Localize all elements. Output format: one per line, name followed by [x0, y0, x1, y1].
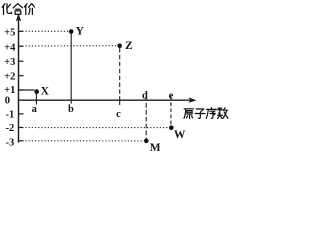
x-axis tick a with riser to X — [35, 93, 37, 105]
子 — [195, 109, 205, 118]
y-axis tick +5 — [19, 30, 24, 32]
价 — [24, 4, 34, 15]
svg-text:-1: -1 — [6, 109, 15, 120]
svg-text:0: 0 — [5, 95, 10, 106]
y-axis tick +3 — [19, 60, 24, 62]
data point Y — [69, 29, 74, 34]
solid line +1 to X — [19, 89, 35, 91]
svg-text:e: e — [169, 90, 174, 101]
x-axis tick c (solid crossing) — [119, 97, 121, 106]
dashed vertical from d down to M — [145, 96, 147, 139]
数 — [217, 108, 228, 119]
y-axis tick +4 — [19, 45, 24, 47]
svg-text:b: b — [68, 104, 74, 115]
y-axis tick -3 — [19, 140, 24, 142]
svg-text:a: a — [32, 104, 38, 115]
svg-text:X: X — [41, 86, 50, 98]
化 — [2, 4, 11, 15]
y-axis tick -2 — [19, 127, 24, 129]
svg-text:-2: -2 — [6, 123, 15, 134]
x-axis arrowhead — [188, 97, 196, 103]
y-axis tick +1 — [19, 89, 24, 91]
svg-text:+2: +2 — [4, 72, 15, 83]
y-axis tick -1 — [19, 113, 24, 115]
svg-text:+4: +4 — [4, 43, 16, 54]
vertical line from Y to b — [70, 34, 72, 104]
svg-text:+3: +3 — [4, 57, 15, 68]
svg-text:c: c — [116, 109, 121, 120]
y-axis arrowhead — [16, 13, 22, 21]
svg-text:W: W — [174, 129, 186, 141]
dotted guide line -3 to M — [19, 140, 144, 142]
svg-text:M: M — [150, 142, 161, 154]
x-axis title 原子序数 (drawn as strokes) — [184, 108, 228, 119]
合 — [13, 4, 23, 14]
x-axis — [19, 99, 194, 101]
svg-text:d: d — [142, 90, 148, 101]
y-axis title 化合价 (drawn as strokes) — [2, 4, 34, 15]
序 — [206, 108, 216, 119]
svg-text:-3: -3 — [6, 138, 15, 149]
data point X — [34, 89, 39, 94]
data point Z — [117, 44, 122, 49]
dotted guide line +5 to Y — [19, 30, 69, 32]
dashed vertical from e down to W — [170, 96, 172, 126]
svg-text:Y: Y — [76, 26, 85, 38]
y-axis — [18, 16, 20, 143]
data point M — [144, 139, 149, 144]
y-axis tick +2 — [19, 75, 24, 77]
dashed vertical from Z to c — [119, 48, 121, 97]
data point W — [169, 125, 174, 130]
dotted guide line +4 to Z — [19, 45, 117, 47]
svg-text:Z: Z — [125, 40, 133, 52]
dotted guide line -2 to W — [19, 127, 169, 129]
svg-text:+5: +5 — [4, 28, 15, 39]
原 — [184, 109, 194, 119]
